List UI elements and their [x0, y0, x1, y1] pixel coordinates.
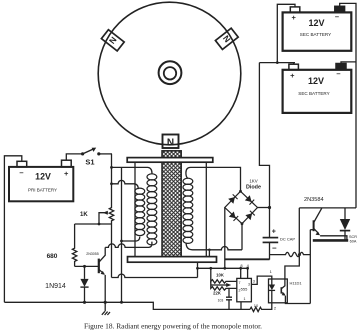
node wiper join — [98, 223, 101, 226]
winding right column — [183, 178, 193, 243]
svg-text:22K: 22K — [213, 291, 221, 296]
resistor 680 — [47, 224, 77, 266]
node squiggle/opto — [298, 253, 301, 256]
magnet N bottom — [163, 135, 179, 149]
node rail/diode — [83, 301, 86, 304]
magnet N right — [215, 28, 238, 49]
wire Q2 base down — [309, 230, 311, 304]
svg-text:12V: 12V — [308, 76, 324, 86]
svg-text:8: 8 — [240, 263, 243, 268]
svg-text:DC CAP: DC CAP — [280, 236, 295, 241]
svg-text:60A: 60A — [350, 239, 357, 243]
wire x112 down — [111, 224, 113, 278]
node junction stub1 — [110, 166, 113, 169]
ground — [102, 302, 110, 315]
node — [196, 267, 199, 270]
wire riser to flange — [197, 262, 199, 277]
switch S1 — [81, 148, 112, 167]
secondary battery 2 (right) — [283, 64, 352, 113]
wire squiggle cap to Q2 base bus — [270, 252, 311, 256]
wire bridge right to node — [258, 207, 270, 209]
wire lead riser to flange — [208, 250, 210, 257]
wire battery minus row — [299, 207, 356, 209]
coil core (crosshatched) — [162, 151, 181, 257]
wire 555 pin1 down — [240, 302, 242, 310]
rotor wheel — [98, 2, 241, 145]
bobbin right wall — [205, 162, 207, 256]
svg-text:SEC BATTERY: SEC BATTERY — [300, 32, 331, 37]
wire rail to opto pin2 — [266, 303, 272, 310]
primary battery 12V — [9, 160, 73, 201]
555 timer IC — [237, 263, 252, 302]
svg-text:N: N — [167, 138, 174, 149]
wire base to Q1 — [75, 265, 99, 267]
svg-text:–: – — [272, 243, 277, 252]
potentiometer 1K — [80, 208, 114, 224]
svg-text:4: 4 — [247, 263, 250, 268]
svg-text:+: + — [292, 13, 297, 22]
wire y277 with hop — [112, 274, 198, 277]
wire sec battery 1 minus — [340, 3, 356, 208]
svg-text:+: + — [64, 169, 69, 178]
svg-text:PRI BATTERY: PRI BATTERY — [28, 188, 57, 193]
svg-text:10: 10 — [254, 303, 259, 308]
wire stub2 to outer winding top — [112, 180, 139, 189]
capacitor 103 — [218, 288, 232, 309]
resistor 10K — [211, 268, 237, 283]
wire stub to inner winding top — [112, 167, 153, 173]
svg-text:10K: 10K — [216, 273, 224, 278]
wire battery1 minus to ground rail — [4, 156, 21, 302]
node lead/bus — [120, 240, 123, 243]
winding left inner column — [147, 174, 157, 245]
wire base row — [75, 223, 112, 225]
wire sec battery 2 minus — [341, 62, 356, 64]
transistor Q1 — [86, 247, 105, 302]
svg-text:680: 680 — [47, 253, 58, 260]
svg-text:S1: S1 — [85, 158, 94, 167]
optocoupler H11D1 — [269, 279, 311, 311]
svg-text:Diode: Diode — [246, 184, 261, 190]
thick emitter bar — [313, 239, 348, 242]
wire right winding bottom lead to bridge bottom — [186, 243, 242, 250]
wire sec battery 1 plus down — [277, 4, 295, 62]
wire coil right winding to bridge top — [186, 167, 241, 191]
svg-text:1: 1 — [270, 269, 273, 274]
node — [223, 267, 226, 270]
svg-text:555: 555 — [241, 287, 248, 292]
svg-text:3: 3 — [248, 283, 250, 287]
wire outer winding bottom lead — [122, 237, 140, 241]
wire switch down — [111, 154, 113, 208]
svg-text:–: – — [19, 168, 23, 177]
capacitor DC — [263, 229, 296, 260]
wire plus bus down to bridge — [259, 63, 269, 238]
secondary battery 1 (top right) — [283, 6, 352, 51]
winding left outer column — [135, 188, 145, 236]
wire battery plus bus — [259, 62, 295, 64]
wire collector row with hops — [105, 242, 152, 248]
wire 555 pin3 to opto — [251, 276, 271, 284]
wire bridge bottom down — [241, 224, 243, 250]
resistor 22K — [211, 281, 237, 295]
coil bobbin bottom flange — [128, 257, 217, 263]
wire 555 supply row — [198, 267, 248, 269]
svg-text:1: 1 — [244, 297, 246, 301]
svg-text:SEC BATTERY: SEC BATTERY — [298, 91, 329, 96]
svg-text:3: 3 — [253, 280, 255, 284]
potentiometer wiper arrow — [211, 284, 228, 286]
diode 1N914 — [45, 266, 88, 302]
transistor Q2 2N3584 — [304, 197, 347, 240]
node stub2 — [110, 182, 113, 185]
bridge rectifier — [225, 179, 261, 225]
ground rail wire — [4, 302, 250, 309]
svg-text:Figure 18. Radiant energy pow: Figure 18. Radiant energy powering of th… — [84, 322, 262, 331]
wire thick bar to cap — [225, 258, 270, 260]
bobbin left wall — [134, 162, 136, 256]
rotor hub — [159, 61, 182, 84]
svg-text:2N3584: 2N3584 — [304, 197, 324, 203]
svg-text:+: + — [272, 229, 276, 236]
svg-text:1KV: 1KV — [249, 179, 257, 184]
wire sec battery 2 plus stub — [293, 63, 295, 65]
svg-text:7: 7 — [239, 281, 241, 285]
node — [209, 267, 212, 270]
svg-text:1K: 1K — [80, 212, 88, 218]
svg-text:–: – — [336, 69, 340, 78]
svg-text:–: – — [335, 12, 339, 21]
svg-text:103: 103 — [218, 299, 224, 303]
wire battery1 plus to switch — [66, 154, 82, 160]
node bridge/battery — [268, 206, 271, 209]
svg-text:12V: 12V — [35, 171, 51, 181]
magnet N left — [101, 30, 124, 51]
svg-text:2N3055: 2N3055 — [86, 252, 99, 256]
wire to opto collector — [285, 208, 299, 279]
node base/diode — [83, 265, 86, 268]
svg-text:2: 2 — [274, 306, 277, 311]
node lead/riser — [208, 249, 211, 252]
svg-text:H11D1: H11D1 — [290, 280, 303, 285]
wire bridge left down — [224, 208, 226, 269]
svg-text:+: + — [290, 71, 295, 80]
SCR diode — [340, 208, 357, 244]
node bus/rail — [120, 301, 123, 304]
svg-text:12V: 12V — [308, 18, 324, 28]
coil bobbin top flange — [127, 158, 213, 163]
node emitter/rail — [104, 301, 107, 304]
svg-text:SCR: SCR — [349, 235, 357, 239]
resistor 10 (in rail) — [250, 307, 266, 311]
wire left bus down to rail — [121, 167, 123, 302]
node — [276, 61, 279, 64]
svg-text:1N914: 1N914 — [45, 283, 66, 290]
